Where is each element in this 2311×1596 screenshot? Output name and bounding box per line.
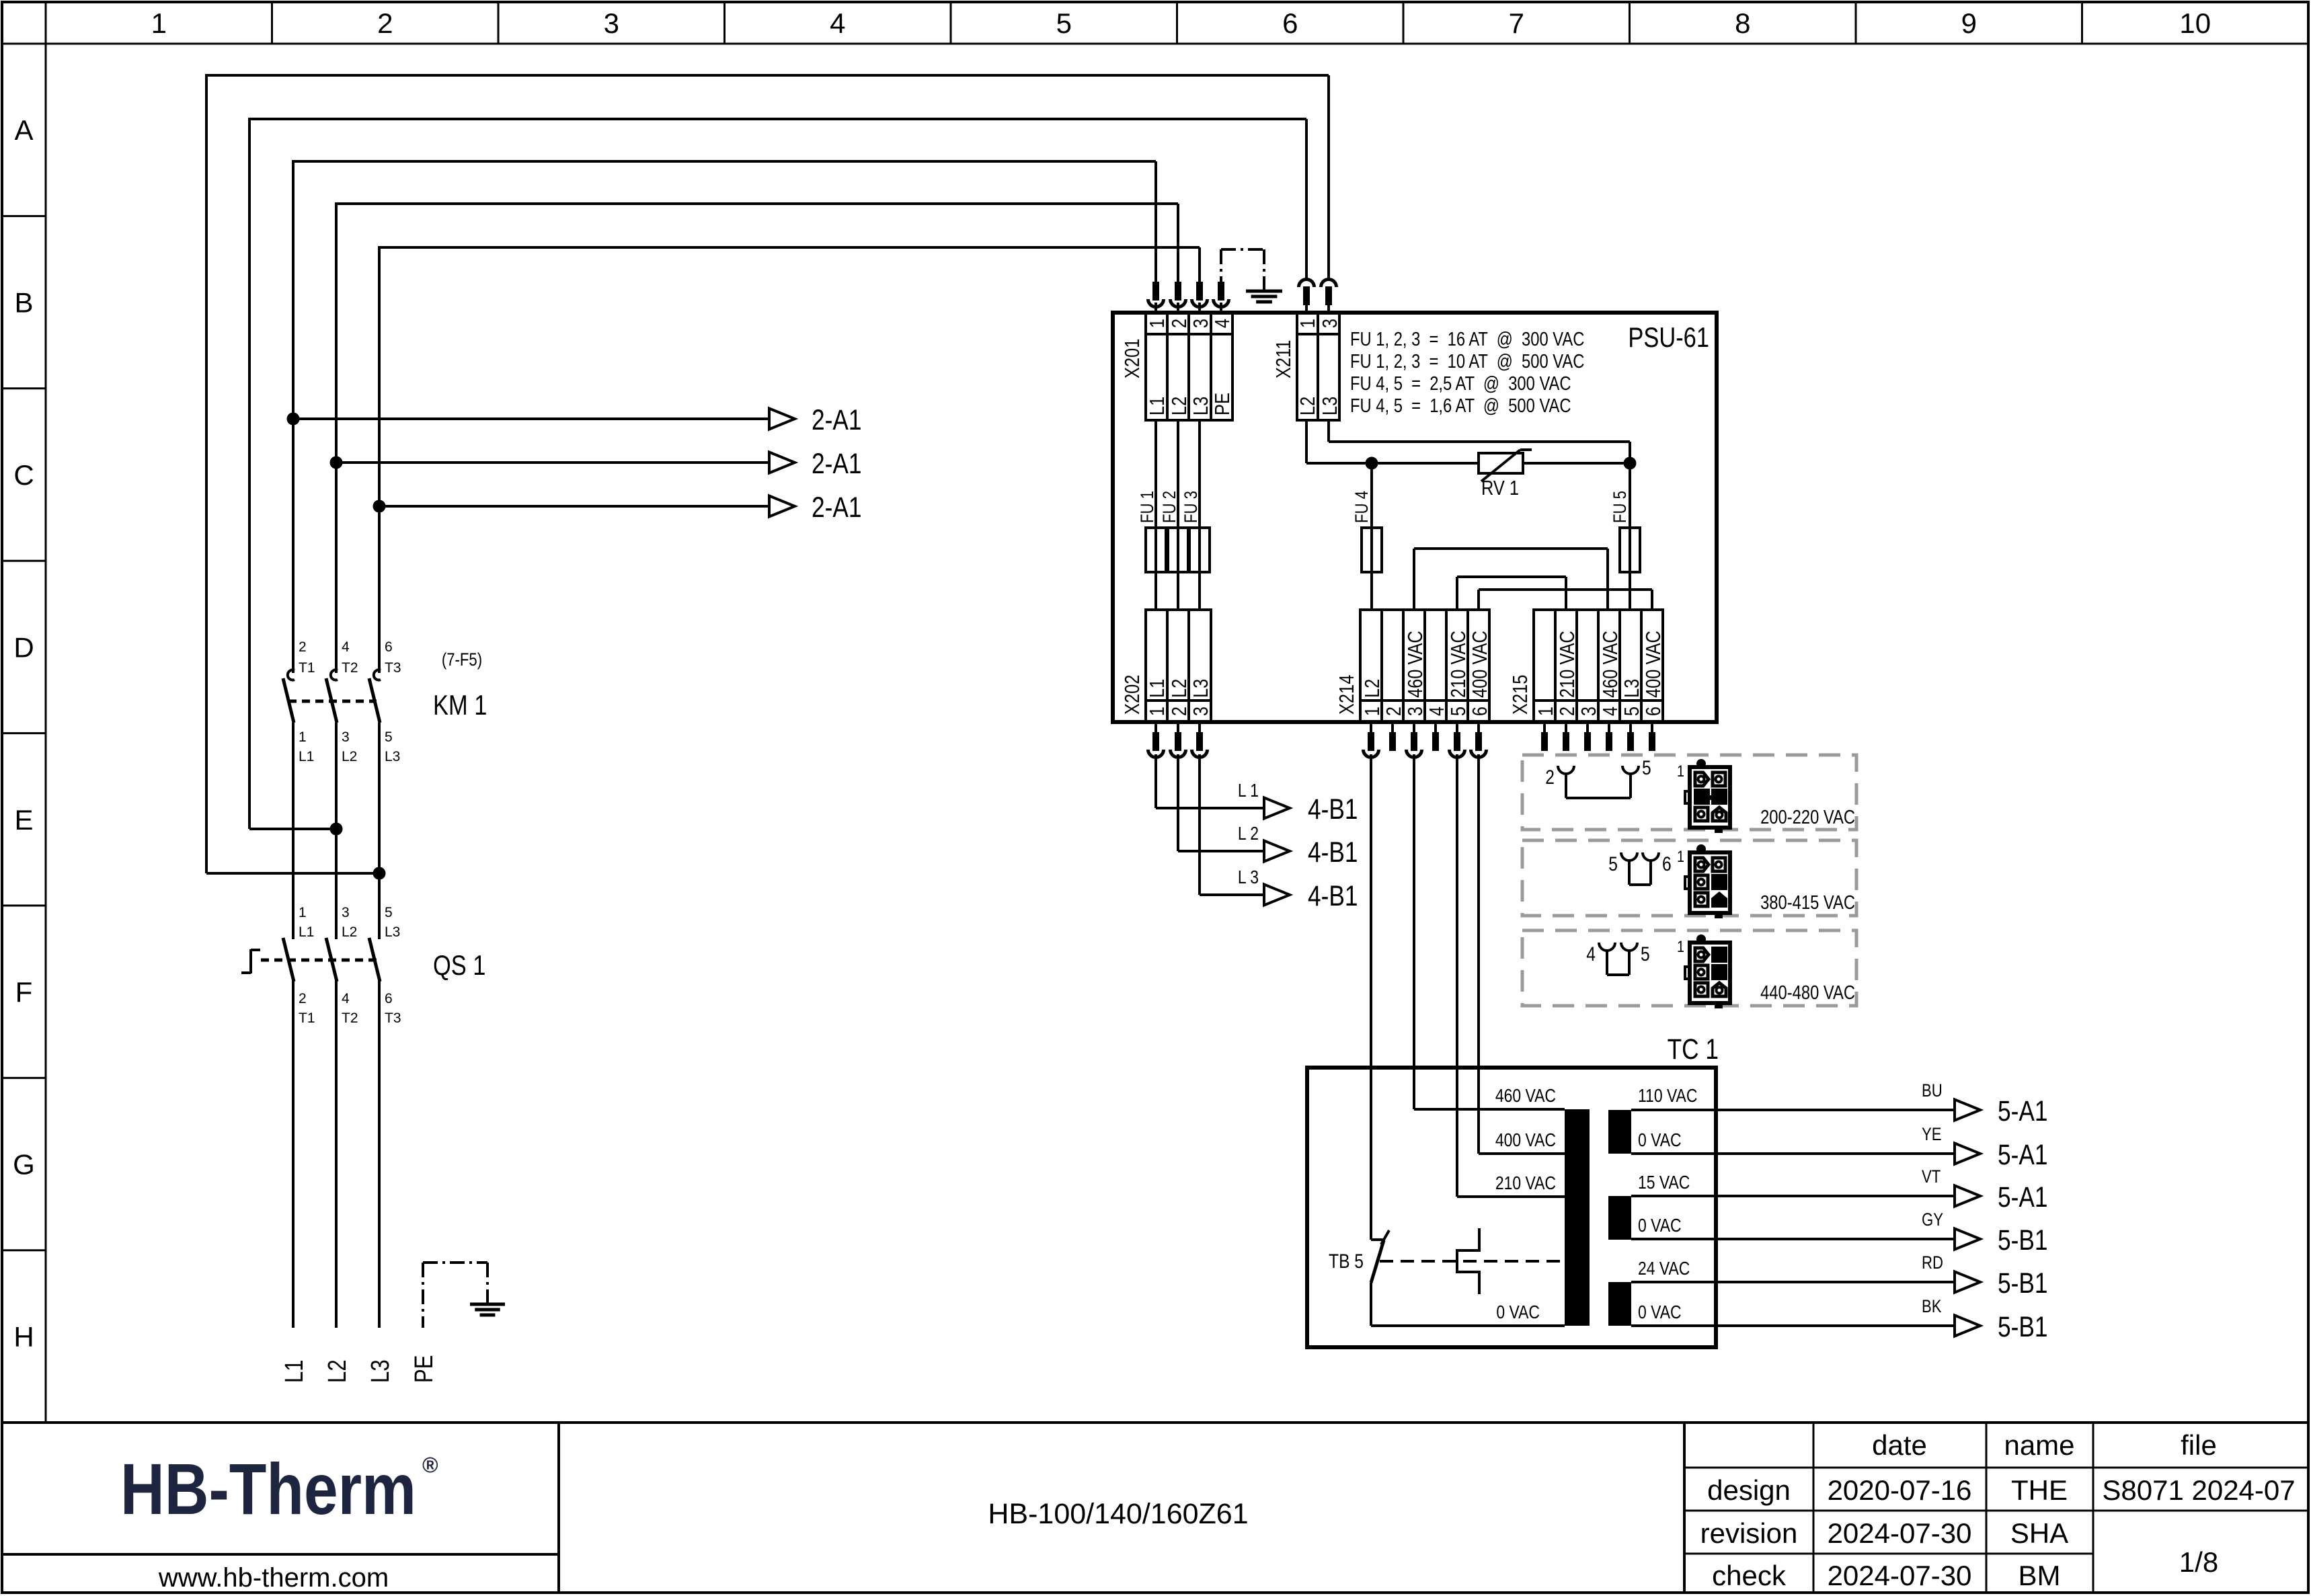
svg-text:X201: X201 [1121,339,1144,378]
PE dash-dot lead and label [422,1263,424,1328]
arrow 2-A1 2 [769,452,795,473]
svg-text:revision: revision [1700,1517,1798,1549]
PSU-61 enclosure box [1113,313,1717,722]
svg-text:5: 5 [1608,852,1618,875]
svg-text:®: ® [422,1453,438,1477]
jumper 5-6 [1621,852,1637,861]
svg-text:1: 1 [1361,707,1384,716]
TB5 thermal element symbol [1457,1228,1479,1294]
wire to 2-A1 arrow 1 [293,417,769,420]
svg-text:T2: T2 [342,660,358,676]
arrow 5-A1 VT [1955,1186,1980,1207]
svg-text:1: 1 [1146,707,1169,716]
svg-text:X211: X211 [1272,340,1296,378]
svg-text:date: date [1872,1429,1927,1461]
arrow 5-A1 YE [1955,1144,1980,1164]
svg-text:A: A [14,114,33,146]
svg-text:460 VAC: 460 VAC [1599,631,1622,698]
svg-text:THE: THE [2011,1474,2068,1506]
svg-text:5-B1: 5-B1 [1998,1224,2047,1256]
wire RD output [1631,1281,1955,1283]
svg-text:1: 1 [151,7,167,39]
node L2 tap junction [249,828,336,830]
svg-text:4: 4 [1586,943,1596,965]
svg-text:2: 2 [1168,319,1191,328]
svg-text:L3: L3 [1620,679,1644,698]
svg-text:T2: T2 [342,1010,358,1026]
svg-text:TB 5: TB 5 [1329,1250,1364,1273]
svg-text:2-A1: 2-A1 [812,491,861,524]
svg-text:1: 1 [299,905,307,920]
svg-text:6: 6 [1662,852,1672,875]
wire BU output [1631,1109,1955,1111]
switch QS1 pole L1 blade [283,938,294,982]
svg-text:3: 3 [1189,319,1213,328]
fuses FU1 FU2 FU3 [1154,420,1157,610]
svg-text:4-B1: 4-B1 [1308,836,1358,869]
contactor KM1 pole L3 contact [374,670,381,680]
frame header row and column [2,43,2308,45]
svg-text:GY: GY [1922,1210,1943,1230]
svg-text:RV 1: RV 1 [1481,477,1519,500]
svg-text:0 VAC: 0 VAC [1496,1302,1540,1323]
terminal block X215 [1534,610,1663,722]
switch QS1 pole L2 blade [326,938,337,982]
svg-text:15 VAC: 15 VAC [1638,1172,1690,1193]
svg-text:380-415 VAC: 380-415 VAC [1760,891,1855,914]
svg-text:FU 1, 2, 3 = 10 AT @ 500 V: FU 1, 2, 3 = 10 AT @ 500 VAC [1350,350,1584,372]
ground symbol top [1246,290,1282,293]
wire BK output [1631,1324,1955,1327]
svg-text:HB-Therm: HB-Therm [120,1448,416,1529]
arrows 4-B1 [1264,798,1290,819]
svg-text:1: 1 [1677,937,1684,955]
svg-text:400 VAC: 400 VAC [1642,631,1666,698]
svg-text:L3: L3 [1189,397,1213,415]
wire to 2-A1 arrow 2 [336,461,769,464]
svg-text:2: 2 [299,639,307,655]
arrow 5-B1 GY [1955,1229,1980,1250]
svg-text:200-220 VAC: 200-220 VAC [1760,806,1855,828]
svg-text:B: B [14,287,33,319]
svg-text:4-B1: 4-B1 [1308,880,1358,912]
svg-text:8: 8 [1735,7,1750,39]
connector icon A [1685,759,1730,833]
wire L3 top run to X201-3 [378,246,1200,249]
svg-text:L 3: L 3 [1238,867,1259,888]
contactor KM1 pole L2 contact [331,670,338,680]
svg-text:S8071 2024-07: S8071 2024-07 [2102,1474,2295,1506]
svg-text:6: 6 [385,639,393,655]
wire L1 feeder vertical [292,161,295,673]
plug pins below X215 [1543,722,1546,732]
wire X211-L3 over to FU5 [1327,420,1330,442]
KM1 mechanical link dashes [288,700,377,703]
svg-text:2024-07-30: 2024-07-30 [1828,1560,1972,1591]
svg-text:H: H [13,1321,34,1353]
terminal block X211 [1297,313,1339,420]
svg-text:5: 5 [1620,707,1644,716]
svg-text:L3: L3 [1319,397,1342,415]
svg-text:440-480 VAC: 440-480 VAC [1760,982,1855,1004]
svg-text:5-A1: 5-A1 [1998,1095,2047,1127]
svg-text:L1: L1 [1146,679,1169,698]
svg-text:L2: L2 [1296,397,1320,415]
svg-text:2: 2 [1556,707,1579,716]
connector icon C [1685,934,1730,1008]
wire to X211 pin1 top run [248,119,251,829]
svg-text:6: 6 [1642,707,1666,716]
svg-text:5: 5 [385,905,393,920]
primary winding bar [1565,1109,1590,1326]
svg-text:3: 3 [1577,707,1601,716]
svg-text:3: 3 [1189,707,1213,716]
ground symbol bottom left [470,1303,505,1306]
voltage select link 210 VAC [1456,577,1458,610]
secondary winding bars [1608,1110,1631,1154]
fuse FU4 [1370,463,1373,610]
svg-text:name: name [2004,1429,2074,1461]
svg-text:BU: BU [1922,1081,1943,1101]
node FU4 top [1366,457,1378,470]
svg-text:X214: X214 [1335,675,1359,715]
wire L3 feeder vertical [378,247,381,673]
contactor KM1 pole L1 contact [288,670,295,680]
jumper 4-5 [1599,943,1615,951]
wire X214-6 400VAC down [1477,754,1480,1154]
voltage select link 400 VAC [1477,590,1480,610]
QS1 manual handle symbol [249,949,252,973]
svg-text:1/8: 1/8 [2179,1546,2218,1578]
wire X214-1 L2 down to TB5 [1370,754,1372,1240]
node L3 tap junction [206,872,379,875]
svg-text:2-A1: 2-A1 [812,404,861,436]
svg-text:D: D [13,631,34,663]
wire X211-L2 to FU4 node [1305,420,1308,463]
svg-text:L3: L3 [385,924,400,940]
svg-text:4-B1: 4-B1 [1308,793,1358,826]
svg-text:FU 4: FU 4 [1352,491,1372,523]
svg-text:FU 1: FU 1 [1138,491,1158,523]
varistor RV1 [1372,462,1479,465]
wire X214-3 460VAC down [1413,754,1415,1109]
svg-text:F: F [15,976,33,1008]
svg-text:FU 1, 2, 3 = 16 AT @ 300 V: FU 1, 2, 3 = 16 AT @ 300 VAC [1350,328,1584,350]
svg-text:2: 2 [1168,707,1191,716]
svg-text:3: 3 [1319,319,1342,328]
svg-text:L3: L3 [1189,679,1213,698]
TB5 actuator dashes [1380,1260,1565,1263]
svg-text:check: check [1712,1560,1787,1591]
PE dash-dot to chassis ground top [1220,249,1222,282]
transformer TC1 box [1307,1068,1716,1347]
svg-text:3: 3 [604,7,619,39]
wire to X211 pin3 top run [205,75,208,873]
svg-text:L1: L1 [1146,397,1169,415]
title block outline [2,1421,2308,1424]
svg-text:5-A1: 5-A1 [1998,1139,2047,1171]
svg-text:YE: YE [1922,1125,1942,1145]
svg-text:3: 3 [342,729,350,745]
svg-text:4: 4 [1599,707,1622,716]
svg-text:T3: T3 [385,1010,401,1026]
svg-text:E: E [14,804,33,836]
QS1 mechanical link dashes [261,959,377,962]
wire X214-5 210VAC down [1456,754,1458,1197]
svg-text:210 VAC: 210 VAC [1447,631,1471,698]
svg-text:400 VAC: 400 VAC [1495,1130,1556,1151]
wire L2 feeder vertical [335,204,338,673]
wire L1 top run to X201-1 [292,160,1156,163]
svg-text:PSU-61: PSU-61 [1628,322,1709,354]
node 2-A1 tap 3 [373,500,386,513]
svg-text:3: 3 [342,905,350,920]
svg-text:2024-07-30: 2024-07-30 [1828,1517,1972,1549]
svg-text:L2: L2 [1168,679,1191,698]
connector icon B [1685,844,1730,918]
svg-text:2: 2 [299,991,307,1006]
svg-text:1: 1 [1146,319,1169,328]
switch QS1 pole L3 blade [369,938,380,982]
terminal block X201 [1146,313,1232,420]
svg-text:L3: L3 [366,1359,395,1383]
svg-text:L3: L3 [385,749,400,764]
svg-text:5: 5 [385,729,393,745]
svg-text:10: 10 [2179,7,2211,39]
svg-text:5: 5 [1641,943,1650,965]
svg-text:6: 6 [1468,707,1492,716]
svg-text:L2: L2 [342,749,357,764]
svg-text:(7-F5): (7-F5) [442,650,482,670]
svg-text:0 VAC: 0 VAC [1638,1215,1682,1236]
svg-text:1: 1 [1677,847,1684,865]
wire YE output [1631,1152,1955,1155]
svg-text:3: 3 [1404,707,1427,716]
svg-text:QS 1: QS 1 [433,950,485,982]
svg-text:file: file [2181,1429,2217,1461]
voltage select link 460 VAC [1413,549,1415,610]
svg-text:460 VAC: 460 VAC [1495,1086,1556,1107]
svg-text:6: 6 [385,991,393,1006]
arrow 5-B1 RD [1955,1272,1980,1293]
plugs below X214 [1370,722,1372,732]
wires X202 to 4-B1 arrows [1154,754,1157,808]
thermal contact TB5 [1371,1238,1385,1241]
svg-text:T1: T1 [299,1010,315,1026]
plug sockets above X211 [1299,280,1315,288]
svg-text:1: 1 [299,729,307,745]
svg-text:FU 4, 5 = 1,6 AT @ 500 VAC: FU 4, 5 = 1,6 AT @ 500 VAC [1350,395,1571,417]
title table lines [1683,1423,1686,1593]
arrow 5-A1 BU [1955,1100,1980,1121]
jumper 2-5 [1558,766,1574,774]
dashed box 200-220 VAC [1522,755,1856,830]
svg-text:L2: L2 [342,924,357,940]
svg-text:1: 1 [1296,319,1320,328]
svg-text:L2: L2 [323,1359,352,1383]
svg-text:X202: X202 [1121,675,1144,715]
svg-text:www.hb-therm.com: www.hb-therm.com [158,1563,389,1593]
plugs below X202 [1154,722,1157,732]
svg-text:400 VAC: 400 VAC [1468,631,1492,698]
svg-text:L1: L1 [280,1359,309,1383]
svg-text:KM 1: KM 1 [433,690,487,721]
svg-text:9: 9 [1961,7,1977,39]
svg-text:BK: BK [1922,1297,1942,1317]
svg-text:G: G [13,1149,35,1181]
svg-text:L2: L2 [1361,679,1384,698]
svg-text:SHA: SHA [2010,1517,2068,1549]
svg-text:1: 1 [1534,707,1558,716]
svg-text:2020-07-16: 2020-07-16 [1828,1474,1972,1506]
svg-text:210 VAC: 210 VAC [1495,1173,1556,1194]
wire L2 top run to X201-2 [335,202,1178,205]
svg-text:VT: VT [1922,1167,1941,1187]
wire GY output [1631,1238,1955,1240]
svg-text:5: 5 [1056,7,1072,39]
svg-text:PE: PE [410,1355,438,1383]
svg-text:FU 3: FU 3 [1181,491,1202,523]
svg-text:460 VAC: 460 VAC [1404,631,1427,698]
arrow 5-B1 BK [1955,1316,1980,1336]
plug pins above X201 [1152,282,1159,301]
svg-text:4: 4 [830,7,845,39]
node 2-A1 tap 2 [330,456,343,469]
svg-text:6: 6 [1282,7,1298,39]
svg-text:5-B1: 5-B1 [1998,1267,2047,1300]
svg-text:4: 4 [342,991,350,1006]
wire VT output [1631,1195,1955,1197]
svg-text:T1: T1 [299,660,315,676]
svg-text:2: 2 [1382,707,1406,716]
svg-text:1: 1 [1677,762,1684,780]
svg-text:RD: RD [1922,1253,1943,1273]
svg-text:5-A1: 5-A1 [1998,1181,2047,1213]
dashed box 440-480 VAC [1522,930,1856,1006]
svg-text:design: design [1707,1474,1791,1506]
svg-text:210 VAC: 210 VAC [1556,631,1579,698]
svg-text:PE: PE [1211,393,1235,415]
dashed box 380-415 VAC [1522,840,1856,916]
svg-text:L 2: L 2 [1238,824,1259,844]
svg-text:L 1: L 1 [1238,781,1259,801]
svg-text:2: 2 [1545,766,1555,789]
wire to 2-A1 arrow 3 [379,505,769,508]
svg-text:FU 4, 5 = 2,5 AT @ 300 VAC: FU 4, 5 = 2,5 AT @ 300 VAC [1350,372,1571,395]
svg-text:C: C [13,459,34,491]
arrow 2-A1 1 [769,409,795,430]
terminal block X202 [1146,610,1211,722]
svg-text:BM: BM [2019,1560,2061,1591]
svg-text:4: 4 [1425,707,1449,716]
svg-text:24 VAC: 24 VAC [1638,1259,1690,1279]
svg-text:5-B1: 5-B1 [1998,1311,2047,1343]
svg-text:TC 1: TC 1 [1668,1033,1719,1066]
svg-text:4: 4 [1211,319,1235,328]
svg-text:T3: T3 [385,660,401,676]
svg-text:110 VAC: 110 VAC [1638,1086,1697,1107]
svg-text:2-A1: 2-A1 [812,448,861,480]
svg-text:L1: L1 [299,749,314,764]
terminal block X214 [1360,610,1489,722]
svg-text:2: 2 [377,7,393,39]
svg-text:HB-100/140/160Z61: HB-100/140/160Z61 [988,1498,1248,1530]
fuse FU5 [1629,463,1631,610]
svg-text:X215: X215 [1509,675,1532,715]
svg-text:L1: L1 [299,924,314,940]
svg-text:0 VAC: 0 VAC [1638,1130,1682,1151]
node FU5 top [1624,457,1637,470]
svg-text:FU 5: FU 5 [1610,491,1631,523]
arrow 2-A1 3 [769,496,795,517]
svg-text:5: 5 [1642,756,1651,779]
svg-text:7: 7 [1509,7,1524,39]
svg-text:4: 4 [342,639,350,655]
svg-text:FU 2: FU 2 [1160,491,1180,523]
svg-text:L2: L2 [1168,397,1191,415]
svg-text:5: 5 [1447,707,1471,716]
node 2-A1 tap 1 [287,413,300,426]
svg-text:0 VAC: 0 VAC [1638,1302,1682,1323]
